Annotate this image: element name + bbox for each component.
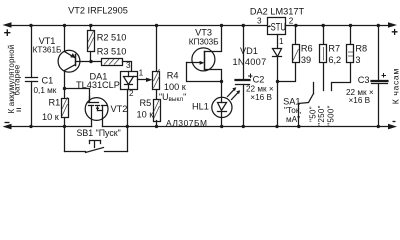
svg-text:R4: R4: [167, 71, 179, 81]
resistor R8: [332, 26, 354, 91]
svg-text:TL431CLP: TL431CLP: [76, 80, 120, 90]
svg-text:VT2 IRFL2905: VT2 IRFL2905: [68, 5, 128, 15]
svg-text:DA2 LM317T: DA2 LM317T: [250, 6, 305, 16]
svg-text:VT2: VT2: [111, 104, 128, 114]
resistor R1: [62, 89, 69, 127]
svg-text:10 к: 10 к: [137, 110, 155, 120]
svg-text:VT1: VT1: [39, 36, 56, 46]
svg-text:"Ток,: "Ток,: [284, 106, 302, 115]
capacitor C2: [236, 26, 250, 127]
svg-text:×16 В: ×16 В: [349, 96, 371, 105]
svg-text:R2 510: R2 510: [97, 33, 127, 43]
resistor R3: [102, 59, 132, 72]
wire R1 node to VT2 gate: [65, 89, 90, 103]
svg-text:3: 3: [126, 61, 131, 70]
svg-text:К часам: К часам: [391, 68, 400, 104]
junction dots bottom rail: [29, 125, 380, 128]
svg-text:R8: R8: [355, 44, 367, 54]
diode VD1: [273, 49, 282, 127]
wire DA1 pin1 to R4 wiper: [138, 78, 153, 82]
svg-text:3: 3: [355, 55, 360, 65]
wire VT1 base to node: [76, 61, 102, 63]
label output minus: [393, 121, 396, 123]
resistor R5: [154, 100, 161, 127]
node output + arrow right top: [388, 22, 397, 28]
resistor R2: [88, 26, 95, 62]
svg-text:АЛ307БМ: АЛ307БМ: [166, 118, 208, 128]
wire top rail left section: [9, 25, 268, 27]
svg-text:"250": "250": [317, 105, 326, 126]
IC DA1 TL431CLP shunt regulator: [121, 72, 138, 90]
label battery minus: [5, 122, 10, 124]
resistor hatch marks: [62, 30, 353, 118]
transistor VT1: [58, 26, 80, 89]
svg-text:1N4007: 1N4007: [233, 57, 267, 67]
wire DA2 pin1: [277, 35, 279, 49]
resistor R6: [278, 26, 300, 82]
resistor R7: [320, 26, 327, 91]
svg-text:R3 510: R3 510: [97, 46, 127, 56]
svg-text:"Uвыкл": "Uвыкл": [159, 92, 186, 103]
svg-text:HL1: HL1: [192, 101, 209, 111]
node battery + arrow left top: [3, 22, 12, 28]
svg-text:0,1 мк: 0,1 мк: [34, 86, 57, 95]
wire bottom rail left section: [9, 126, 92, 128]
svg-text:1: 1: [139, 68, 144, 77]
plus C2: [248, 74, 253, 79]
capacitor C3: [372, 26, 388, 127]
svg-text:"500": "500": [326, 105, 335, 126]
capacitor C1: [26, 26, 38, 127]
svg-text:3: 3: [257, 16, 262, 25]
node VT1 collector junction: [63, 87, 66, 90]
svg-text:SA1: SA1: [283, 96, 300, 106]
node equals mark: [17, 108, 22, 110]
node VT1 base junction: [89, 60, 92, 63]
svg-text:мА": мА": [286, 115, 300, 124]
junction dots top rail: [29, 24, 380, 27]
transistor VT2: [85, 97, 108, 127]
svg-text:10 к: 10 к: [42, 112, 60, 122]
wire top rail right section: [286, 25, 393, 27]
svg-text:VD1: VD1: [240, 46, 258, 56]
svg-text:+: +: [4, 26, 11, 40]
svg-text:×16 В: ×16 В: [250, 93, 272, 102]
node output - arrow right bottom: [388, 124, 397, 130]
svg-text:КТ361Б: КТ361Б: [33, 46, 62, 55]
svg-text:C3: C3: [358, 75, 370, 85]
plus C3: [382, 73, 387, 78]
svg-text:батарее: батарее: [13, 64, 22, 95]
svg-text:R7: R7: [328, 44, 340, 54]
svg-text:100 к: 100 к: [164, 82, 187, 92]
switch SA1: [299, 83, 314, 127]
svg-text:C2: C2: [253, 74, 265, 84]
svg-text:STU: STU: [271, 21, 286, 32]
node VD1 R6 junction: [276, 80, 279, 83]
svg-text:39: 39: [301, 55, 311, 65]
wire DA1 pin2 down: [127, 90, 129, 127]
svg-text:R5: R5: [140, 98, 152, 108]
voltage regulator DA2 LM317T box: [268, 18, 286, 35]
LED HL1: [212, 82, 240, 127]
svg-text:2: 2: [289, 16, 294, 25]
wire bottom rail right section: [103, 126, 393, 128]
svg-text:2: 2: [129, 89, 134, 98]
switch SB1: [65, 127, 128, 153]
svg-text:SB1 "Пуск": SB1 "Пуск": [77, 128, 121, 138]
node battery - arrow left bottom: [3, 124, 12, 130]
transistor VT3: [187, 26, 222, 82]
svg-text:КП303Б: КП303Б: [189, 36, 219, 46]
svg-text:R1: R1: [49, 98, 61, 108]
node VT3 gate junction: [220, 80, 223, 83]
resistor R4: [153, 26, 160, 100]
svg-text:6,2: 6,2: [328, 55, 341, 65]
svg-text:1: 1: [279, 37, 284, 46]
svg-text:C1: C1: [42, 76, 54, 86]
svg-text:R6: R6: [301, 44, 313, 54]
svg-text:+: +: [391, 27, 398, 39]
